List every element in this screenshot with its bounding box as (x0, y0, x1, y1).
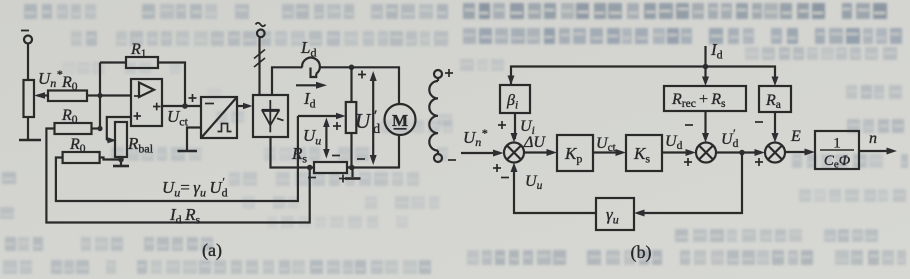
wire beta_i to junction 1, arrow (511, 113, 518, 143)
junction dot left of Rs (307, 165, 313, 171)
minus mark above Rs wire (332, 155, 340, 157)
trigger unit GT box (201, 97, 237, 138)
trigger diagonal (201, 97, 237, 138)
trigger ground wire (187, 128, 201, 151)
wire Rs to motor corner (347, 166, 399, 168)
wire R_a to junction 3, arrow (772, 112, 779, 143)
wire R1 left to node (100, 61, 126, 63)
wire top to R_a (706, 67, 776, 83)
node Uct dot (182, 103, 188, 109)
ground stub at Rs right (351, 168, 353, 178)
svg-text:Ud′: Ud′ (355, 108, 380, 137)
AC terminal circle (257, 30, 265, 38)
negative supply terminal (21, 31, 32, 44)
resistor R1 (feedback) (126, 57, 158, 68)
svg-text:ΔU: ΔU (523, 134, 546, 151)
arrow into beta_i box (508, 76, 515, 86)
summing junction 2 (696, 143, 716, 163)
svg-text:n: n (869, 130, 877, 147)
wire Rrec to junction 2, arrow (702, 111, 709, 143)
sense wiper arrow (298, 113, 346, 120)
op-amp plus mark (input) (134, 112, 142, 120)
thyristor symbol (262, 100, 284, 132)
junction dot right of Rs (349, 165, 355, 171)
motor M circle (385, 104, 416, 135)
wire op-amp plus input (107, 117, 131, 140)
AC phase slashes (254, 50, 265, 68)
node dot row2 (97, 126, 102, 131)
wire row3 to R_bal bottom (100, 158, 121, 160)
svg-text:E: E (790, 128, 801, 145)
block Ks (626, 135, 662, 171)
arrow junction 2 to junction 3 (716, 149, 765, 156)
field plus sign (445, 69, 453, 77)
junction dot I_d (703, 64, 709, 70)
trigger minus mark (205, 103, 214, 105)
field wire top (437, 78, 439, 81)
plus mark before junction 2 (684, 158, 692, 166)
plus mark at sense wiper (333, 122, 341, 130)
op-amp minus mark (134, 95, 141, 97)
top wire to L_d (271, 66, 302, 68)
plus mark input (493, 164, 501, 172)
inductor L_d loop (302, 58, 320, 74)
trigger ground bar (178, 150, 198, 153)
potentiometer R_bal (115, 122, 127, 157)
rectifier bottom wire to Rs (271, 137, 315, 168)
block R_a (759, 86, 791, 112)
minus mark at U_d' bottom (357, 158, 365, 160)
wire gamma_u to junction 1 (514, 167, 596, 214)
arrow U_d' (double head) (370, 71, 377, 165)
minus mark Rrec drop (685, 124, 693, 126)
summing junction 1 (504, 143, 524, 163)
field winding bottom terminal (434, 154, 442, 162)
wire row2 to node (92, 127, 102, 129)
resistor R0 (row 1) (48, 91, 87, 102)
AC supply tilde (256, 23, 266, 27)
arrow junction1 to Kp (524, 149, 557, 156)
plus mark U_i (498, 121, 506, 129)
wire node to op-amp minus input (100, 94, 131, 96)
wiper arrow into pot (34, 92, 48, 99)
resistor Rs (314, 162, 347, 173)
wire R_bal bottom (120, 157, 122, 165)
wire motor bottom (398, 135, 400, 169)
sense potentiometer column (346, 102, 357, 133)
wire down to sense pot (350, 67, 352, 102)
node dot on top wire (349, 65, 355, 71)
svg-text:(a): (a) (202, 240, 222, 261)
minus mark R_a drop (755, 121, 763, 123)
thyristor rectifier box (253, 95, 288, 137)
arrow input to summing junction 1 (461, 150, 504, 157)
field winding coil (429, 81, 438, 151)
wire terminal to potentiometer (27, 44, 29, 81)
node line (summing node) (99, 63, 101, 129)
op-amp plus mark (output) (153, 103, 161, 111)
node dot row1 (97, 93, 102, 98)
wire sense pot to bottom (350, 133, 352, 168)
minus mark below wire left of Rs (308, 177, 316, 179)
wire row3 left drop (Uu feedback) (56, 116, 298, 201)
arrow into junction 1 bottom (511, 163, 518, 173)
resistor R0 (row 2) (55, 123, 92, 134)
DC+ output wire up (271, 67, 273, 95)
AC wire down (258, 37, 260, 95)
label + at Uct (189, 94, 197, 102)
plus mark at U_d' top (358, 71, 366, 79)
op-amp A box (131, 79, 162, 126)
resistor R0 (row 3) (63, 152, 100, 163)
wire op-amp output (162, 105, 201, 107)
wire row1 to node (87, 94, 101, 96)
arrow Ks to junction 2 (662, 149, 696, 156)
arrow I_d (296, 82, 327, 89)
op-amp triangle (139, 83, 154, 98)
wire row2 left drop (IdRs feedback) (46, 129, 309, 223)
field wire bottom (437, 151, 439, 154)
arrow into R_a box (772, 77, 779, 87)
plus mark below wire right of Rs (339, 175, 347, 183)
rail bar (19, 139, 41, 142)
arrow U_u (double head) (323, 118, 330, 159)
arrow Kp to Ks (593, 149, 626, 156)
arrow into gamma_u box (634, 210, 645, 217)
svg-text:Uu= γu Ud′: Uu= γu Ud′ (162, 175, 228, 200)
block beta_i (500, 85, 530, 113)
trigger pulse glyph (218, 124, 232, 132)
motor M underline (394, 128, 407, 130)
R_bal wiper arrow (107, 137, 117, 143)
fraction bar (820, 149, 854, 151)
block gamma_u (596, 198, 634, 230)
block 1/(CeF) (815, 131, 859, 169)
wire U_d' node down to gamma feedback (638, 153, 742, 214)
potentiometer RP (given voltage) (24, 80, 35, 117)
top wire L_d to motor corner (320, 66, 399, 68)
wire top corner to motor (398, 66, 400, 104)
svg-text:(b): (b) (631, 242, 652, 263)
ground bar under R_bal (113, 165, 129, 168)
arrow trigger to rectifier (237, 103, 253, 110)
summing junction 3 (765, 143, 785, 163)
field winding top terminal (434, 70, 442, 78)
svg-text:1: 1 (833, 136, 841, 152)
top feedback wire (beta_i) (511, 67, 706, 86)
svg-text:Rrec + Rs: Rrec + Rs (671, 91, 726, 110)
arrow junction 3 to CeF block (785, 149, 815, 156)
field minus sign (448, 159, 456, 161)
I_d wire down, arrow into Rrec box (702, 46, 709, 86)
output arrow n (859, 148, 897, 155)
wire pot to rail bar (27, 117, 29, 139)
minus mark U_u (501, 177, 509, 179)
wire R1 right to output (158, 63, 185, 107)
block Rrec + Rs (664, 86, 746, 111)
block Kp (557, 135, 593, 171)
plus mark before junction 3 (755, 158, 763, 166)
ground bar at Rs right (345, 177, 361, 180)
junction dot R_bal bottom (118, 157, 124, 163)
node dot U_d' (739, 150, 745, 156)
svg-text:M: M (392, 111, 408, 130)
